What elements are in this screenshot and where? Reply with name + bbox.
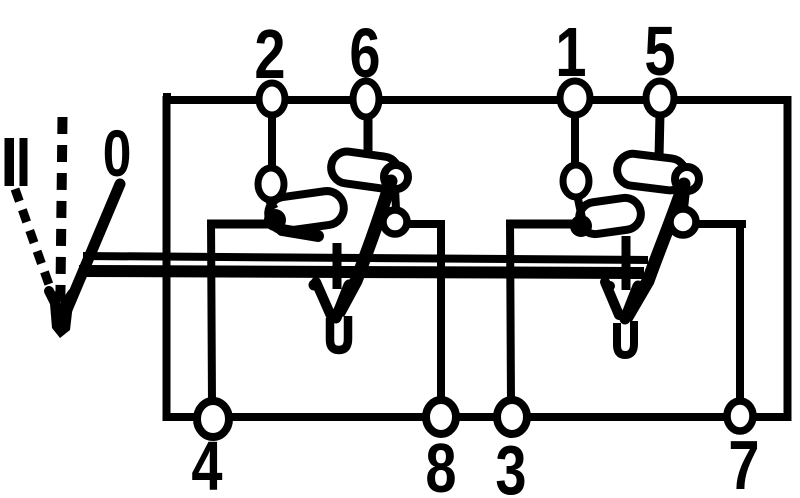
lever neutral dashed line xyxy=(60,117,63,332)
link bulb to pivot circle left xyxy=(395,188,396,209)
terminal 5 circle xyxy=(646,81,674,115)
right lower contact blade xyxy=(577,196,643,236)
svg-text:4: 4 xyxy=(191,428,222,498)
lever arrowhead body xyxy=(50,304,73,338)
right upper blade end bulb xyxy=(675,167,699,191)
svg-text:1: 1 xyxy=(555,14,586,91)
lever arrowhead left wing xyxy=(49,291,57,307)
right arm dot xyxy=(605,281,615,291)
inner contact-frame left: vertical to terminal 4 xyxy=(211,220,212,403)
pivot circle right xyxy=(670,209,696,235)
svg-text:6: 6 xyxy=(349,15,380,92)
right arm hook xyxy=(617,321,634,355)
lever arrowhead right wing xyxy=(63,293,72,307)
terminal 1 circle xyxy=(560,81,590,115)
lever position II dashed line xyxy=(15,189,53,296)
terminal 4 circle xyxy=(197,401,229,437)
inner contact-frame left: top bar left segment xyxy=(207,220,292,229)
left lower contact blade xyxy=(266,189,346,233)
svg-text:3: 3 xyxy=(495,432,526,498)
top-left corner tick xyxy=(163,93,171,104)
svg-text:2: 2 xyxy=(254,16,285,93)
inner contact-frame left: vertical to terminal 8 xyxy=(437,222,445,401)
lever (position 0) xyxy=(66,184,120,312)
left blade junction thickening xyxy=(282,230,318,236)
link contact circle to left lower blade xyxy=(265,191,274,209)
left arm arrow wing xyxy=(316,282,331,316)
link bulb to pivot circle right xyxy=(684,190,686,209)
actuator bar bottom line xyxy=(79,271,644,273)
actuator bar top line xyxy=(83,256,648,260)
svg-text:8: 8 xyxy=(425,430,456,498)
contact circle below terminal 2 xyxy=(258,168,284,200)
svg-text:0: 0 xyxy=(103,116,132,191)
right blade junction node xyxy=(570,215,592,237)
terminal 6 circle xyxy=(353,81,379,117)
switch body rectangle xyxy=(167,100,788,417)
wire: terminal 6 to upper contact blade xyxy=(364,114,373,157)
svg-text:7: 7 xyxy=(728,427,759,498)
left upper blade end bulb xyxy=(384,165,408,189)
inner contact-frame right: top bar left segment xyxy=(506,220,584,229)
terminal 3 circle xyxy=(497,400,527,434)
svg-text:5: 5 xyxy=(644,13,675,90)
terminal 2 circle xyxy=(259,83,285,115)
left arm dot xyxy=(309,280,320,291)
wire: terminal 1 to contact circle xyxy=(571,112,579,168)
label II xyxy=(5,138,15,186)
pivot circle left xyxy=(383,210,407,234)
left moving arm xyxy=(336,181,391,318)
right arm arrow wing xyxy=(605,282,619,315)
inner contact-frame left: top bar right segment xyxy=(401,220,445,228)
right arm lower reinforcement xyxy=(625,286,638,319)
left upper contact blade xyxy=(329,149,401,190)
pushrod stub left xyxy=(333,243,342,289)
wire: terminal 2 to contact circle xyxy=(268,112,276,172)
right upper contact blade xyxy=(615,152,687,192)
left blade junction node xyxy=(264,209,286,231)
link contact circle to right lower blade xyxy=(577,194,582,218)
inner contact-frame right: vertical to terminal 7 xyxy=(736,222,744,403)
inner contact-frame right: vertical to terminal 3 xyxy=(510,220,511,402)
right moving arm xyxy=(627,184,684,317)
inner contact-frame right: top bar right segment xyxy=(695,220,746,228)
left arm lower reinforcement xyxy=(336,285,349,318)
pushrod stub right xyxy=(622,236,631,290)
contact circle below terminal 1 xyxy=(563,165,589,197)
terminal 8 circle xyxy=(426,400,456,434)
terminal 7 circle xyxy=(727,401,753,431)
wire: terminal 5 to upper contact blade xyxy=(659,113,660,158)
left arm hook xyxy=(330,316,348,350)
